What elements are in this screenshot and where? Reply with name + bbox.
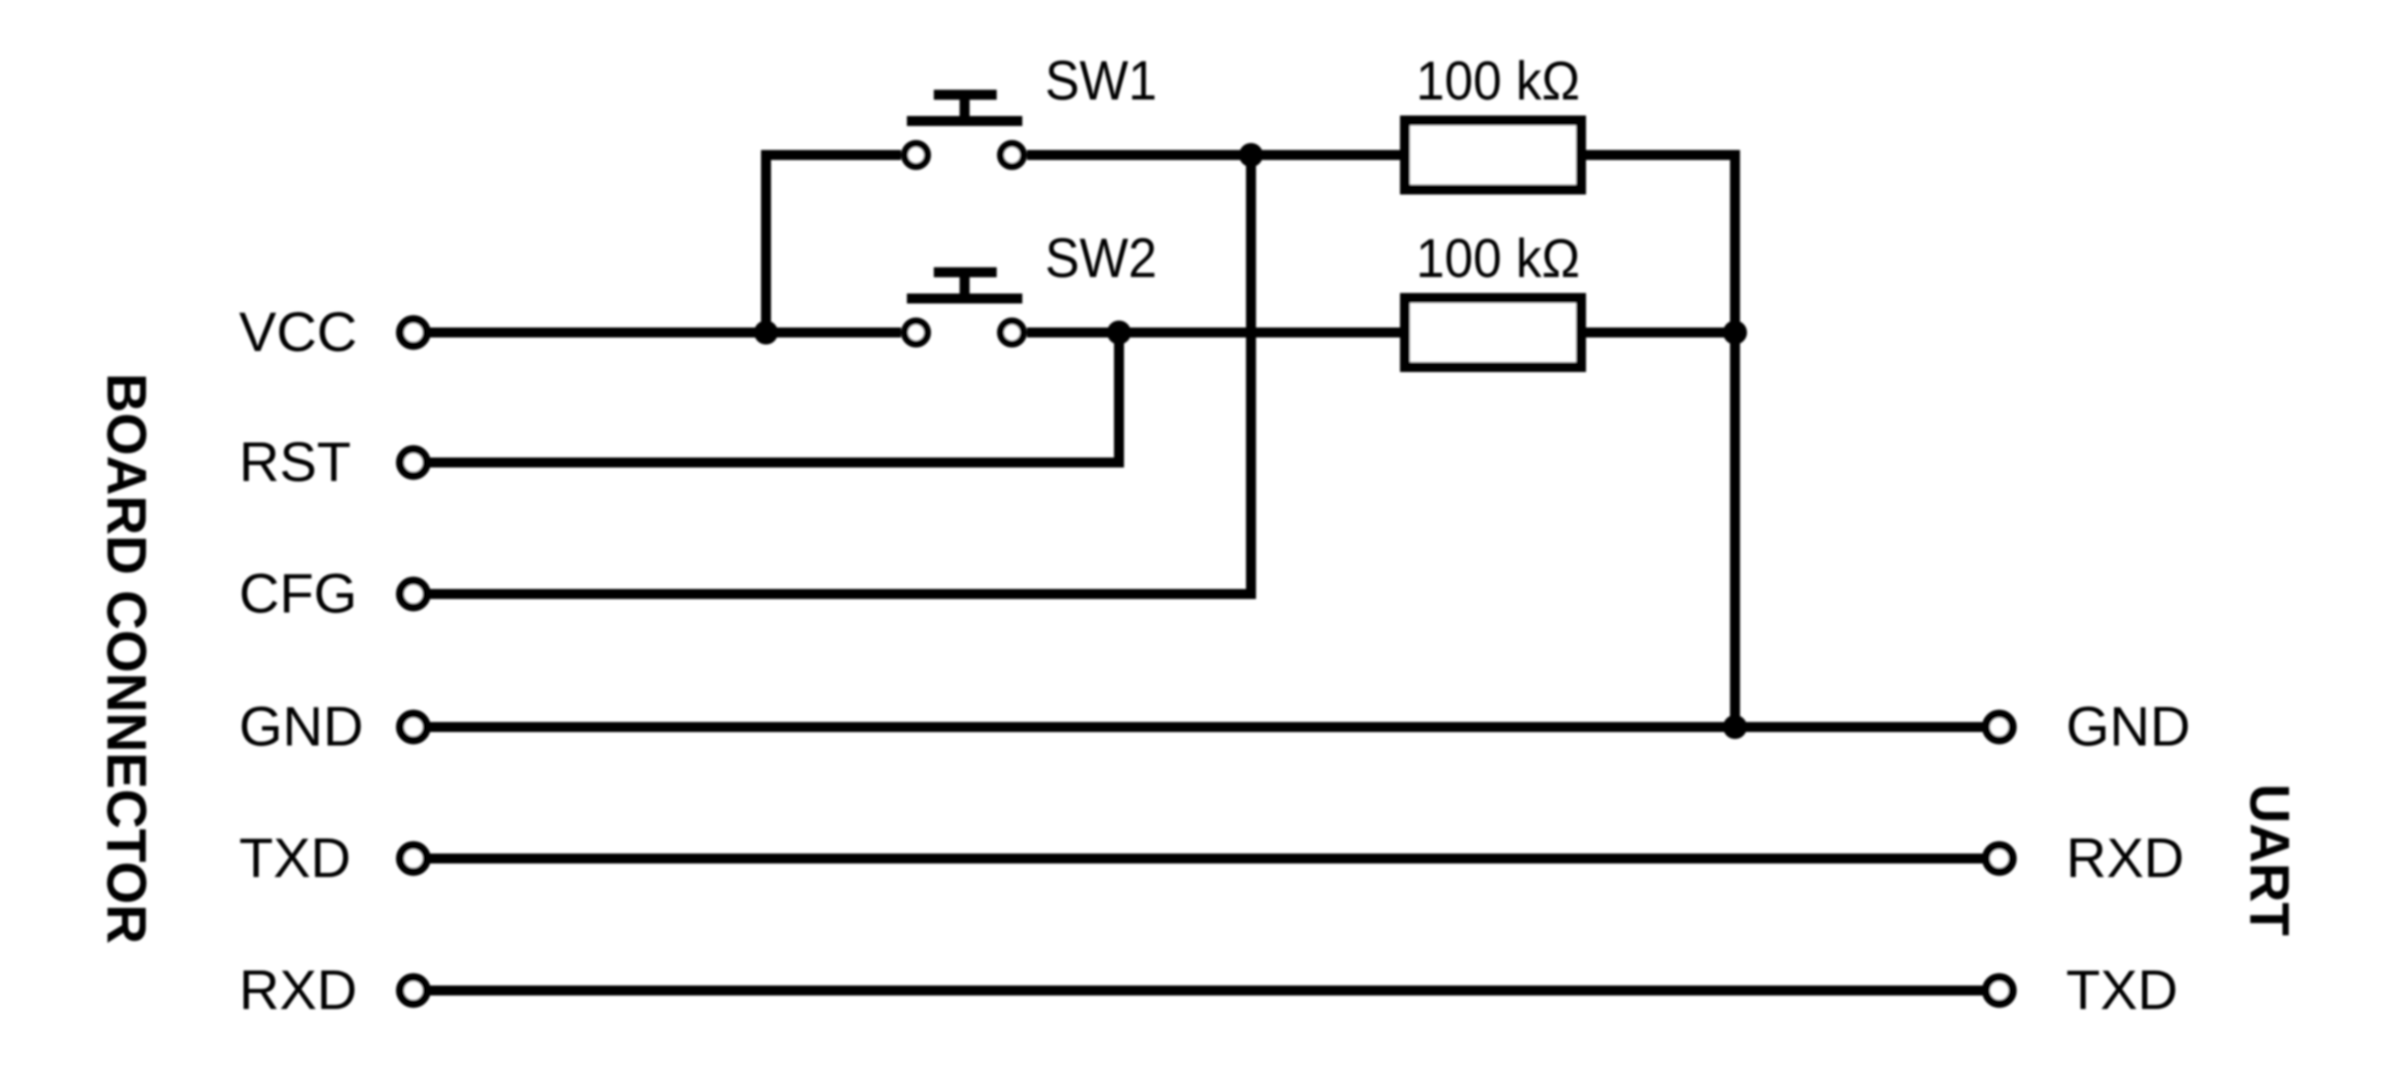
svg-text:UART: UART [2239, 784, 2302, 936]
terminal CFG [400, 581, 427, 608]
svg-text:RXD: RXD [2066, 826, 2184, 889]
terminal VCC [400, 319, 427, 346]
svg-text:100 kΩ: 100 kΩ [1416, 50, 1580, 112]
svg-text:100 kΩ: 100 kΩ [1416, 227, 1580, 289]
wire RXD to TXD [430, 986, 1983, 996]
wire R1 output right corner down to GND row [1584, 155, 1735, 727]
terminal TXD right [1986, 977, 2013, 1004]
svg-text:RXD: RXD [239, 958, 357, 1021]
wire VCC from terminal to SW2 left contact [430, 328, 901, 338]
svg-text:SW1: SW1 [1045, 49, 1157, 112]
terminal TXD left [400, 845, 427, 872]
svg-text:CFG: CFG [239, 562, 357, 625]
terminal GND right [1986, 714, 2013, 741]
svg-text:VCC: VCC [239, 300, 357, 363]
svg-text:SW2: SW2 [1045, 226, 1157, 289]
junction node SW2 output / RST [1107, 321, 1131, 345]
wire TXD to RXD [430, 854, 1983, 864]
svg-text:TXD: TXD [2066, 958, 2178, 1021]
junction node R2 output / right vertical [1723, 321, 1747, 345]
svg-text:RST: RST [239, 430, 351, 493]
junction node right vertical / GND [1723, 715, 1747, 739]
wire RST from terminal up to SW2 output node [430, 333, 1119, 463]
wire R2 output to right vertical [1584, 328, 1735, 338]
terminal RST [400, 449, 427, 476]
wire CFG from terminal up to SW1 output node [430, 155, 1251, 594]
resistor R1 [1405, 121, 1581, 190]
terminal GND left [400, 714, 427, 741]
terminal RXD right [1986, 845, 2013, 872]
svg-text:GND: GND [239, 695, 363, 758]
svg-text:BOARD CONNECTOR: BOARD CONNECTOR [96, 373, 159, 944]
wire GND from left terminal to right terminal [430, 722, 1983, 732]
svg-text:TXD: TXD [239, 826, 351, 889]
junction node VCC/SW1 branch [754, 321, 778, 345]
svg-text:GND: GND [2066, 695, 2190, 758]
pushbutton SW2 [905, 272, 1024, 344]
terminal RXD left [400, 977, 427, 1004]
resistor R2 [1405, 298, 1581, 367]
junction node SW1 output / CFG [1239, 143, 1263, 167]
wire SW2 output to resistor R2 [1027, 328, 1402, 338]
wire SW1 output to resistor R1 [1027, 150, 1402, 160]
wire branch VCC up to SW1 left contact [766, 155, 901, 333]
pushbutton SW1 [905, 95, 1024, 167]
